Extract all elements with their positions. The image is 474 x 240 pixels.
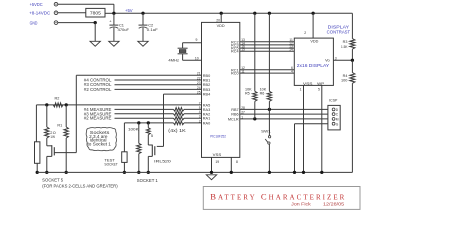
svg-text:1.5K: 1.5K xyxy=(341,45,348,49)
svg-text:RB3: RB3 xyxy=(203,88,210,92)
label #3 CONTROL xyxy=(84,82,112,87)
label VDD xyxy=(217,23,225,28)
svg-text:3: 3 xyxy=(335,57,337,61)
terminal GND xyxy=(30,20,58,25)
junction rail-LCD VDD xyxy=(311,12,314,15)
svg-text:to Socket 1: to Socket 1 xyxy=(88,142,112,147)
svg-text:VSS: VSS xyxy=(303,81,313,86)
svg-text:#2 MEASURE: #2 MEASURE xyxy=(84,116,112,121)
junction R1 gnd xyxy=(65,171,68,174)
wire OSC1 pin9 xyxy=(183,38,202,48)
connector J1 ICSP xyxy=(328,97,340,129)
svg-text:7805: 7805 xyxy=(90,10,101,15)
junction RB7-SW1 xyxy=(268,108,271,111)
svg-text:RA1: RA1 xyxy=(203,117,210,121)
label LCD VDD xyxy=(310,38,318,43)
wire 7805 output xyxy=(105,12,114,14)
svg-text:8: 8 xyxy=(236,160,238,164)
junction R2-2ohm xyxy=(45,103,48,106)
label Vo xyxy=(325,58,330,63)
label TEST SOCKET xyxy=(104,158,118,167)
resistor R3 1.5K xyxy=(341,13,355,60)
svg-text:R3: R3 xyxy=(343,40,348,44)
wire RB1 control4 xyxy=(115,79,202,81)
capacitor C1 470uF xyxy=(109,13,129,41)
svg-text:RC0: RC0 xyxy=(231,72,239,76)
svg-text:RA5: RA5 xyxy=(203,103,210,107)
junction test socket minus xyxy=(123,171,126,174)
label FOR PACKS xyxy=(42,183,118,188)
wire +5V rail xyxy=(114,12,353,14)
label LCD VSS WP xyxy=(303,81,325,86)
svg-text:RA2: RA2 xyxy=(203,112,210,116)
svg-text:RB0: RB0 xyxy=(203,74,210,78)
pin 20 label xyxy=(216,19,220,23)
label #4 MEASURE xyxy=(84,107,112,112)
junction R2-R1 xyxy=(65,103,68,106)
svg-text:RB6: RB6 xyxy=(231,113,238,117)
transistor Q1 IRL520 xyxy=(148,145,172,173)
pin RA1 label xyxy=(199,115,210,121)
svg-text:RB4: RB4 xyxy=(203,93,210,97)
junction GND xyxy=(94,21,97,24)
junction LCD WP gnd xyxy=(320,171,323,174)
battery socket 5 xyxy=(35,142,40,164)
pin RC5 labels xyxy=(231,45,302,51)
wire MCLR to ICSP M xyxy=(240,118,332,120)
pin RB6 label xyxy=(231,111,245,117)
junction rail-R6 xyxy=(268,12,271,15)
wire gate socket5 xyxy=(54,75,76,152)
wire test socket minus xyxy=(123,162,125,172)
wire RB4 control1 xyxy=(164,93,202,95)
svg-text:4MHz: 4MHz xyxy=(168,58,179,63)
svg-text:470uF: 470uF xyxy=(118,27,130,32)
resistor R4 100 xyxy=(341,60,355,172)
label +5V xyxy=(125,8,133,13)
pin RB7 label xyxy=(231,106,245,112)
pin RC4 labels xyxy=(231,48,302,54)
svg-text:2: 2 xyxy=(304,31,306,35)
svg-text:5: 5 xyxy=(318,88,320,92)
wire GND input xyxy=(58,22,95,24)
resistor 1K a with wire RA3 xyxy=(115,108,202,112)
label DISPLAY CONTRAST xyxy=(327,25,351,35)
svg-text:PIC18F252: PIC18F252 xyxy=(210,135,226,139)
ICSP pin G xyxy=(332,122,339,126)
resistor 5ohm xyxy=(146,123,153,145)
wire socket5 plus xyxy=(35,105,37,142)
ground main xyxy=(206,175,216,180)
svg-text:+8-14VDC: +8-14VDC xyxy=(29,11,51,16)
resistor R2 xyxy=(53,97,63,107)
svg-text:5: 5 xyxy=(151,133,153,138)
pin RC2 labels xyxy=(231,38,302,44)
svg-text:(4x) 1K: (4x) 1K xyxy=(168,128,186,133)
wire VSS pin8 xyxy=(231,157,238,172)
svg-text:(FOR PACKS 2-CELLS AND GREATER: (FOR PACKS 2-CELLS AND GREATER) xyxy=(42,183,118,188)
junction rail-R5 xyxy=(253,12,256,15)
svg-text:2x16 DISPLAY: 2x16 DISPLAY xyxy=(297,63,330,68)
svg-text:R1: R1 xyxy=(57,124,62,128)
ground C1 xyxy=(109,41,119,46)
pin RB1 label xyxy=(197,76,210,82)
wire ICSP G xyxy=(295,124,333,173)
terminal +8-14VDC xyxy=(29,11,58,16)
wire RC3 to LCD D5 xyxy=(240,44,294,46)
junction rail-C2 xyxy=(141,12,144,15)
svg-text:10: 10 xyxy=(195,57,199,61)
resistor R6 10K xyxy=(260,13,272,109)
crystal Y1 4MHz xyxy=(178,48,188,54)
label 2x16 DISPLAY xyxy=(297,63,330,68)
pin RB0 label xyxy=(197,72,210,78)
pin RC0 labels xyxy=(231,70,303,76)
label #2 CONTROL xyxy=(84,87,112,92)
junction 5ohm top xyxy=(147,121,150,124)
switch SW1 xyxy=(261,109,271,172)
resistor 1K c with wire RA1 xyxy=(115,116,202,120)
title Jon Fick xyxy=(291,202,312,207)
wire OSC2 pin10 xyxy=(183,54,202,61)
svg-text:Jon Fick: Jon Fick xyxy=(291,202,312,207)
svg-text:RB7: RB7 xyxy=(231,108,238,112)
svg-text:R6: R6 xyxy=(260,92,265,96)
wire RC1 to LCD EN xyxy=(240,69,294,71)
pin RB4 label xyxy=(197,91,210,97)
wire RB0 control5 xyxy=(76,74,201,76)
pin RA5 label xyxy=(199,101,210,107)
svg-text:SOCKET 5: SOCKET 5 xyxy=(42,178,64,183)
svg-text:Vo: Vo xyxy=(325,58,330,63)
resistor 100K xyxy=(128,123,141,172)
resistor 1K d with wire RA0 xyxy=(124,121,201,125)
svg-text:19: 19 xyxy=(215,160,219,164)
wire ground rail xyxy=(37,171,352,173)
svg-text:MCLR: MCLR xyxy=(228,117,239,121)
junction rail-VDD xyxy=(220,12,223,15)
svg-text:+5V: +5V xyxy=(125,8,133,13)
svg-text:VDD: VDD xyxy=(310,38,318,43)
ICSP pin D xyxy=(332,108,339,112)
svg-text:VSS: VSS xyxy=(213,152,222,157)
pin RB3 label xyxy=(197,86,210,92)
junction LCD VSS gnd xyxy=(302,171,305,174)
svg-text:R2: R2 xyxy=(54,97,59,101)
title date xyxy=(323,202,345,207)
wire Vo pin3 xyxy=(333,57,352,61)
svg-text:1: 1 xyxy=(300,88,302,92)
pin RC1 labels xyxy=(231,66,302,72)
svg-text:BATTERY CHARACTERIZER: BATTERY CHARACTERIZER xyxy=(210,191,344,201)
wire LCD WP pin5 xyxy=(318,85,322,172)
wire LCD VDD pin2 xyxy=(304,13,313,38)
junction socket5 source xyxy=(45,171,48,174)
svg-text:12/28/05: 12/28/05 xyxy=(323,202,345,207)
svg-text:IRL520: IRL520 xyxy=(154,158,172,163)
pin RA0 label xyxy=(199,119,210,125)
wire RC2 to LCD D4 xyxy=(240,41,294,43)
label #4 CONTROL xyxy=(84,78,112,83)
svg-text:CONTRAST: CONTRAST xyxy=(327,30,351,35)
resistor R5 10K xyxy=(245,13,257,119)
svg-text:RA3: RA3 xyxy=(203,108,210,112)
wire test socket plus xyxy=(123,123,125,152)
title BATTERY CHARACTERIZER xyxy=(210,191,344,201)
title block box xyxy=(203,187,360,210)
ground GND terminal xyxy=(90,41,100,46)
junction ICSP G gnd xyxy=(293,171,296,174)
junction VSS8 gnd xyxy=(230,171,233,174)
pin MCLR label xyxy=(228,115,243,121)
ICSP pin C xyxy=(332,113,339,117)
junction rail-C1 xyxy=(112,12,115,15)
svg-text:R5: R5 xyxy=(245,92,250,96)
wire +5VDC input xyxy=(58,4,114,13)
svg-text:4: 4 xyxy=(291,70,293,74)
svg-text:+5VDC: +5VDC xyxy=(30,2,44,7)
wire RB6 to ICSP C xyxy=(240,113,332,115)
wire +8-14VDC input xyxy=(58,12,86,14)
wire RB2 control3 xyxy=(115,84,202,86)
junction socket5 minus xyxy=(36,171,39,174)
svg-text:WP: WP xyxy=(317,81,324,86)
wire RC0 to LCD RS xyxy=(240,72,294,74)
svg-text:VDD: VDD xyxy=(217,23,225,28)
pin RA2 label xyxy=(199,110,210,116)
svg-text:15: 15 xyxy=(241,48,245,52)
label #2 MEASURE xyxy=(84,116,112,121)
ground C2 xyxy=(138,41,148,46)
regulator U2 7805 xyxy=(86,8,105,17)
junction VSS19 gnd xyxy=(210,171,213,174)
svg-text:RB1: RB1 xyxy=(203,79,210,83)
label VSS xyxy=(213,152,222,157)
wire GND down xyxy=(94,23,96,42)
junction MCLR-R5 xyxy=(253,117,256,120)
svg-text:0.1uF: 0.1uF xyxy=(147,27,159,32)
svg-text:#2 CONTROL: #2 CONTROL xyxy=(84,87,112,92)
junction IRL520 source xyxy=(147,171,150,174)
wire RC5 to LCD D6 xyxy=(240,47,294,49)
label 4MHz xyxy=(168,58,179,63)
pin RA3 label xyxy=(199,106,210,112)
svg-text:100K: 100K xyxy=(128,127,139,132)
wire VSS pin19 xyxy=(212,157,220,172)
display module 2x16 box xyxy=(294,38,333,85)
wire RB7 to ICSP D xyxy=(240,108,332,110)
op IC U1 PIC18F252 box xyxy=(202,22,240,157)
resistor 2ohm 1W xyxy=(45,105,56,139)
transistor Q2 socket5 mosfet xyxy=(47,138,55,172)
label #3 MEASURE xyxy=(84,111,112,116)
svg-text:G: G xyxy=(336,122,339,126)
pin RB2 label xyxy=(197,81,210,87)
wire RC4 to LCD D7 xyxy=(240,50,294,52)
wire RB3 control2 xyxy=(115,88,202,90)
svg-text:14: 14 xyxy=(289,48,293,52)
label PIC18F252 xyxy=(210,135,226,139)
svg-text:RB2: RB2 xyxy=(203,83,210,87)
svg-text:SOCKET 1: SOCKET 1 xyxy=(137,178,159,183)
svg-text:100: 100 xyxy=(341,78,347,82)
label SOCKET 5 xyxy=(42,178,64,183)
svg-text:GND: GND xyxy=(30,20,38,25)
svg-text:SW1: SW1 xyxy=(261,129,271,134)
svg-text:R4: R4 xyxy=(343,74,348,78)
wire RA5 measure5 xyxy=(36,104,201,106)
ICSP pin M xyxy=(332,118,339,122)
svg-text:RA0: RA0 xyxy=(203,121,210,125)
resistor R1 xyxy=(57,105,68,172)
terminal +5VDC xyxy=(30,2,58,7)
svg-text:RC4: RC4 xyxy=(231,50,239,54)
note bubble sockets xyxy=(86,127,116,150)
junction SW1 gnd xyxy=(268,171,271,174)
svg-text:11: 11 xyxy=(241,70,245,74)
battery test socket xyxy=(122,152,127,163)
wire LCD VSS pin1 xyxy=(300,85,304,172)
junction Vo-R3-R4 xyxy=(351,59,354,62)
wire socket5 minus xyxy=(36,163,38,172)
wire gate test socket xyxy=(157,94,164,146)
svg-text:9: 9 xyxy=(196,38,198,42)
label (4x) 1K xyxy=(168,128,186,133)
svg-text:1W: 1W xyxy=(50,135,55,139)
svg-text:ICSP: ICSP xyxy=(329,97,338,102)
wire VDD pin20 xyxy=(220,13,222,22)
pin RC3 labels xyxy=(231,41,302,47)
capacitor C2 0.1uF xyxy=(139,13,159,41)
svg-text:SOCKET: SOCKET xyxy=(104,162,118,167)
svg-text:M: M xyxy=(336,118,339,122)
junction 100K gnd xyxy=(137,171,140,174)
junction 100K top xyxy=(137,121,140,124)
label SOCKET 1 xyxy=(137,178,159,183)
resistor 1K b with wire RA2 xyxy=(115,112,202,116)
